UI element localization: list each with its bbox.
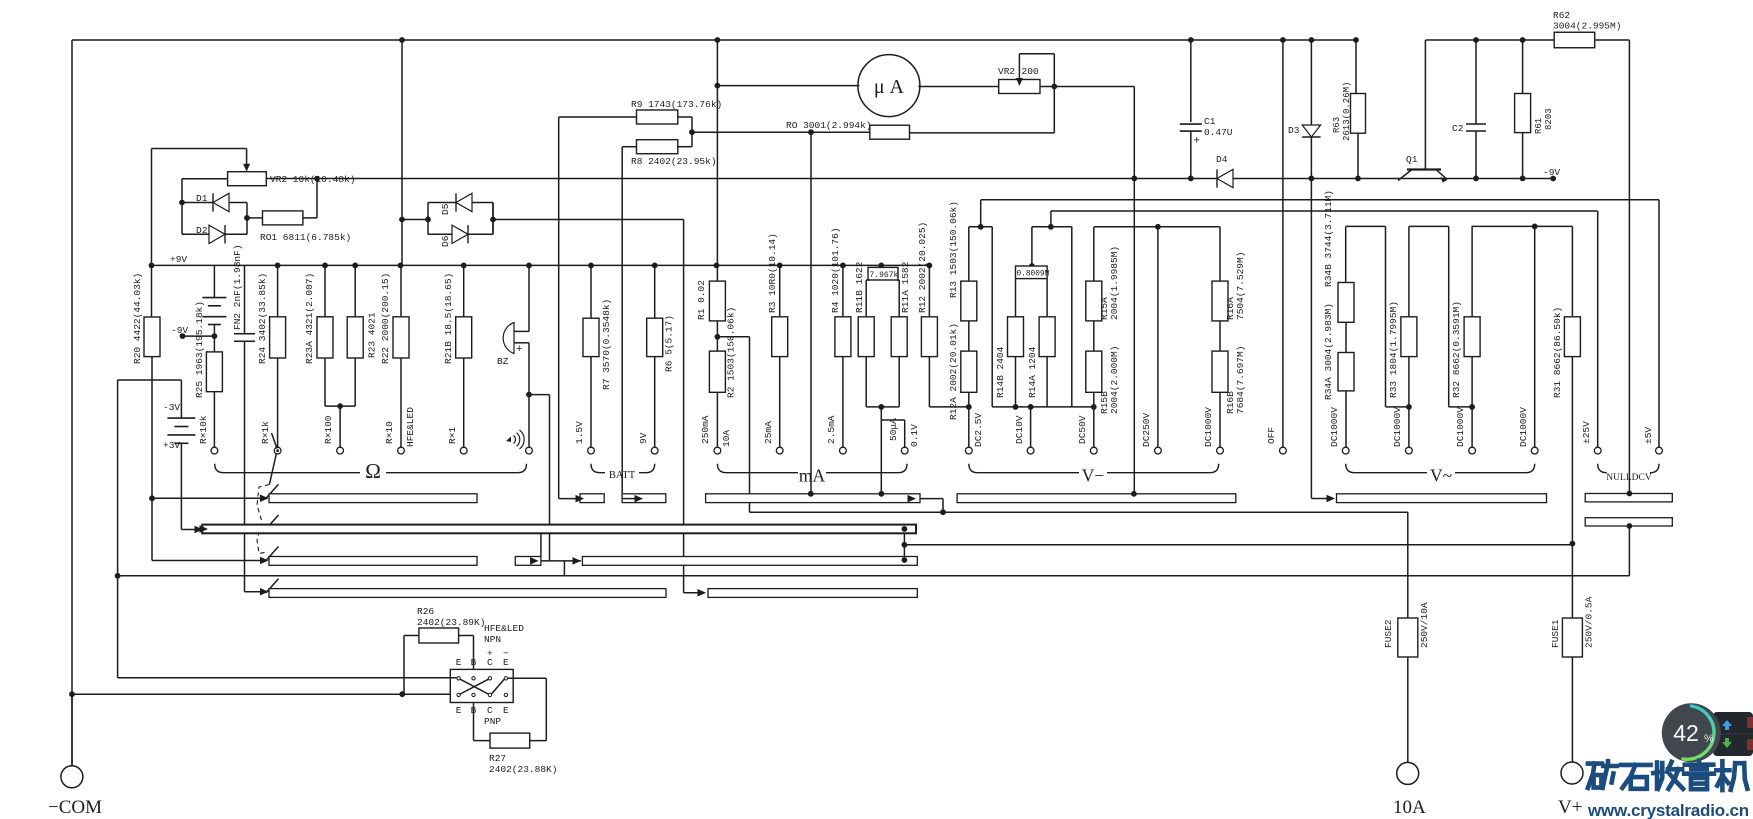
svg-text:50μA: 50μA: [888, 418, 899, 441]
svg-text:E: E: [503, 705, 509, 716]
svg-text:±25V: ±25V: [1581, 421, 1592, 444]
svg-text:R24 3402(33.85k): R24 3402(33.85k): [257, 273, 268, 364]
svg-text:250V/0.5A: 250V/0.5A: [1584, 596, 1595, 648]
svg-text:C2: C2: [1452, 123, 1464, 134]
svg-text:C: C: [487, 705, 493, 716]
svg-text:2.5mA: 2.5mA: [826, 415, 837, 444]
svg-text:R12 2002(20.025): R12 2002(20.025): [917, 222, 928, 313]
svg-text:R23 4021: R23 4021: [367, 312, 378, 358]
svg-text:7504(7.529M): 7504(7.529M): [1235, 252, 1246, 320]
svg-text:DC10V: DC10V: [1014, 415, 1025, 444]
svg-text:%: %: [1704, 733, 1714, 745]
svg-text:R32 8662(0.3591M): R32 8662(0.3591M): [1451, 301, 1462, 398]
svg-text:R8 2402(23.95k): R8 2402(23.95k): [631, 156, 717, 167]
svg-text:R1 0.02: R1 0.02: [696, 280, 707, 320]
svg-text:E: E: [456, 657, 462, 668]
svg-text:+3V: +3V: [163, 440, 180, 451]
svg-text:PNP: PNP: [484, 716, 501, 727]
svg-text:D5: D5: [440, 203, 451, 215]
svg-text:HFE&LED: HFE&LED: [484, 623, 524, 634]
svg-text:DC1000V: DC1000V: [1455, 407, 1466, 447]
svg-text:DC1000V: DC1000V: [1518, 407, 1529, 447]
svg-text:R3 10R0(10.14): R3 10R0(10.14): [767, 233, 778, 313]
svg-text:R27: R27: [489, 753, 506, 764]
svg-text:2004(2.000M): 2004(2.000M): [1109, 346, 1120, 414]
svg-text:−COM: −COM: [48, 797, 102, 818]
svg-text:R21B 18.5(18.65): R21B 18.5(18.65): [443, 273, 454, 364]
svg-text:R63: R63: [1332, 117, 1342, 133]
svg-text:BZ: BZ: [497, 356, 509, 367]
svg-text:NPN: NPN: [484, 634, 501, 645]
svg-text:R23A 4321(2.007): R23A 4321(2.007): [304, 273, 315, 364]
svg-text:C1: C1: [1204, 116, 1216, 127]
svg-text:FUSE1: FUSE1: [1550, 619, 1561, 648]
svg-text:10A: 10A: [1393, 797, 1426, 818]
svg-text:DC1000V: DC1000V: [1203, 407, 1214, 447]
svg-text:8203: 8203: [1544, 108, 1554, 130]
svg-text:OFF: OFF: [1266, 427, 1277, 444]
svg-text:+: +: [516, 343, 522, 355]
svg-text:R31 8662(86.50k): R31 8662(86.50k): [1552, 307, 1563, 398]
svg-text:10A: 10A: [721, 430, 732, 447]
svg-text:R14A 1204: R14A 1204: [1027, 346, 1038, 398]
svg-text:R4 1020(101.76): R4 1020(101.76): [830, 227, 841, 313]
svg-text:Q1: Q1: [1406, 154, 1418, 165]
svg-text:FN2 2nF(1.98nF): FN2 2nF(1.98nF): [232, 244, 243, 330]
svg-text:R33 1804(1.7995M): R33 1804(1.7995M): [1388, 301, 1399, 398]
svg-text:3004(2.995M): 3004(2.995M): [1553, 21, 1621, 32]
svg-text:R×10: R×10: [384, 421, 395, 444]
svg-text:7.967k: 7.967k: [870, 271, 899, 280]
svg-text:μ A: μ A: [874, 76, 905, 98]
svg-text:R34B 3744(3.711M): R34B 3744(3.711M): [1323, 190, 1334, 287]
svg-text:R9 1743(173.76k): R9 1743(173.76k): [631, 99, 722, 110]
svg-text:R11B 1622: R11B 1622: [854, 261, 865, 313]
svg-text:R22 2000(200.15): R22 2000(200.15): [380, 273, 391, 364]
svg-text:R14B 2404: R14B 2404: [995, 346, 1006, 398]
svg-text:R×1: R×1: [447, 427, 458, 444]
svg-text:Ω: Ω: [365, 459, 381, 483]
svg-text:DC1000V: DC1000V: [1392, 407, 1403, 447]
svg-text:V~: V~: [1430, 466, 1452, 486]
svg-text:R13 1503(150.06k): R13 1503(150.06k): [948, 201, 959, 298]
svg-text:R25 1963(195.18k): R25 1963(195.18k): [194, 301, 205, 398]
svg-text:R2 1503(150.06k): R2 1503(150.06k): [726, 307, 737, 398]
svg-text:R×100: R×100: [323, 415, 334, 444]
svg-text:R20 4422(44.03k): R20 4422(44.03k): [132, 273, 143, 364]
svg-text:BATT: BATT: [609, 470, 636, 481]
svg-text:VR2: VR2: [998, 66, 1015, 77]
svg-text:2004(1.9985M): 2004(1.9985M): [1109, 246, 1120, 320]
svg-text:B: B: [471, 657, 477, 668]
svg-text:DC250V: DC250V: [1141, 412, 1152, 447]
svg-text:7684(7.697M): 7684(7.697M): [1235, 346, 1246, 414]
svg-text:+: +: [1194, 135, 1200, 147]
svg-text:2402(23.89K): 2402(23.89K): [417, 617, 485, 628]
svg-text:DC1000V: DC1000V: [1329, 407, 1340, 447]
svg-text:-3V: -3V: [163, 402, 180, 413]
svg-text:R6 5(5.17): R6 5(5.17): [664, 315, 675, 372]
svg-text:200: 200: [1022, 66, 1039, 77]
svg-text:-9V: -9V: [171, 325, 188, 336]
svg-text:+9V: +9V: [170, 254, 187, 265]
svg-text:E: E: [503, 657, 509, 668]
svg-text:±5V: ±5V: [1643, 427, 1654, 444]
svg-text:D3: D3: [1288, 125, 1300, 136]
svg-text:D6: D6: [440, 235, 451, 247]
svg-text:R12A 2002(20.01k): R12A 2002(20.01k): [948, 323, 959, 420]
svg-text:42: 42: [1673, 720, 1699, 746]
svg-text:V−: V−: [1082, 466, 1105, 486]
svg-text:HFE&LED: HFE&LED: [405, 407, 416, 447]
svg-text:C: C: [487, 657, 493, 668]
svg-text:0.1V: 0.1V: [909, 424, 920, 447]
svg-text:2402(23.88K): 2402(23.88K): [489, 764, 557, 775]
svg-text:250mA: 250mA: [700, 415, 711, 444]
svg-text:2613(0.26M): 2613(0.26M): [1342, 82, 1352, 141]
svg-text:FUSE2: FUSE2: [1383, 619, 1394, 648]
svg-text:www.crystalradio.cn: www.crystalradio.cn: [1587, 801, 1749, 819]
svg-text:DC50V: DC50V: [1077, 415, 1088, 444]
svg-text:0.47U: 0.47U: [1204, 127, 1233, 138]
svg-text:R×1k: R×1k: [260, 421, 271, 444]
svg-text:D4: D4: [1216, 154, 1228, 165]
svg-text:R11A 1582: R11A 1582: [900, 261, 911, 313]
svg-text:25mA: 25mA: [763, 421, 774, 444]
svg-text:DC2.5V: DC2.5V: [973, 412, 984, 447]
svg-text:9V: 9V: [638, 432, 649, 444]
svg-text:V+: V+: [1558, 797, 1582, 818]
svg-text:R26: R26: [417, 606, 434, 617]
svg-text:VR2 10k(10.48k): VR2 10k(10.48k): [270, 174, 356, 185]
svg-text:0.8009M: 0.8009M: [1017, 271, 1050, 279]
svg-text:R62: R62: [1553, 10, 1570, 21]
svg-text:RO1 6811(6.785k): RO1 6811(6.785k): [260, 232, 351, 243]
svg-text:E: E: [456, 705, 462, 716]
svg-text:NULLDCV: NULLDCV: [1606, 473, 1652, 483]
svg-text:RO 3001(2.994k): RO 3001(2.994k): [786, 120, 872, 131]
svg-text:R34A 3004(2.983M): R34A 3004(2.983M): [1323, 303, 1334, 400]
svg-text:R61: R61: [1534, 118, 1544, 134]
svg-text:R×10k: R×10k: [198, 415, 209, 444]
svg-text:mA: mA: [799, 466, 826, 486]
svg-text:R7 3570(0.3548k): R7 3570(0.3548k): [601, 299, 612, 390]
svg-text:1.5V: 1.5V: [574, 421, 585, 444]
svg-text:250V/10A: 250V/10A: [1419, 602, 1430, 648]
